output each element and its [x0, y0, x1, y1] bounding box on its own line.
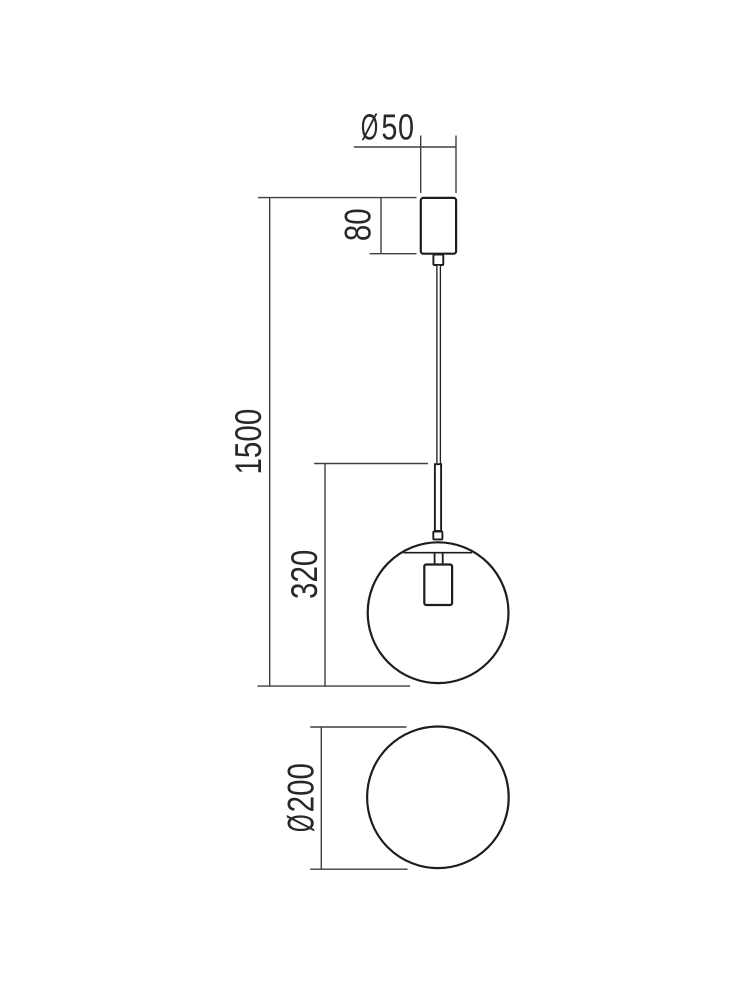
glass sphere	[368, 542, 509, 683]
extension line top tick	[258, 197, 417, 199]
neck left line	[434, 553, 436, 564]
svg-text:Ø: Ø	[361, 108, 378, 148]
neck right line	[442, 553, 444, 564]
label O50	[361, 107, 415, 149]
extension line bottom tick shared	[258, 685, 411, 687]
dimension line O200 vertical	[320, 727, 322, 869]
extension line canopy right	[455, 136, 457, 194]
svg-text:320: 320	[285, 550, 326, 599]
extension line O200 bottom tick	[310, 868, 407, 870]
extension line canopy left	[420, 136, 422, 194]
dimension line 80 vertical	[380, 198, 382, 254]
dimension line 1500 vertical	[269, 198, 271, 686]
label 80	[338, 208, 379, 241]
svg-text:80: 80	[338, 208, 379, 241]
strain relief nub	[433, 255, 443, 266]
rod	[435, 464, 441, 531]
extension line 80 bottom tick	[370, 253, 417, 255]
svg-text:1500: 1500	[229, 409, 270, 475]
label O200	[280, 763, 322, 832]
svg-text:200: 200	[281, 763, 322, 812]
lamp socket	[424, 565, 452, 606]
svg-text:Ø: Ø	[280, 814, 322, 832]
svg-text:50: 50	[381, 107, 414, 148]
bottom view circle	[367, 727, 509, 869]
label 320	[285, 550, 326, 599]
dimension line 320 vertical	[324, 464, 326, 687]
label 1500	[229, 409, 270, 475]
extension line O200 top tick	[310, 726, 406, 728]
sphere opening rim chord	[404, 552, 473, 554]
collar	[433, 532, 442, 540]
extension line 320 top tick	[314, 463, 428, 465]
canopy body	[421, 198, 456, 254]
suspension cable	[437, 265, 441, 464]
dimension line O50 horizontal	[354, 146, 456, 148]
